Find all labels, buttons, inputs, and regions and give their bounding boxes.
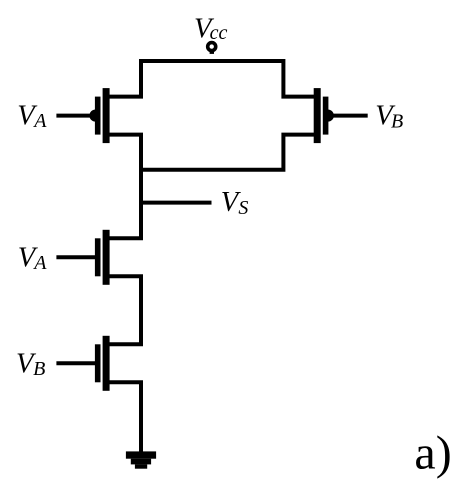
svg-text:a): a) <box>414 427 451 480</box>
svg-text:B: B <box>33 358 45 380</box>
svg-text:A: A <box>32 252 47 274</box>
svg-text:B: B <box>391 111 403 133</box>
svg-text:A: A <box>32 110 47 132</box>
svg-text:S: S <box>238 197 248 219</box>
svg-text:cc: cc <box>210 22 228 44</box>
